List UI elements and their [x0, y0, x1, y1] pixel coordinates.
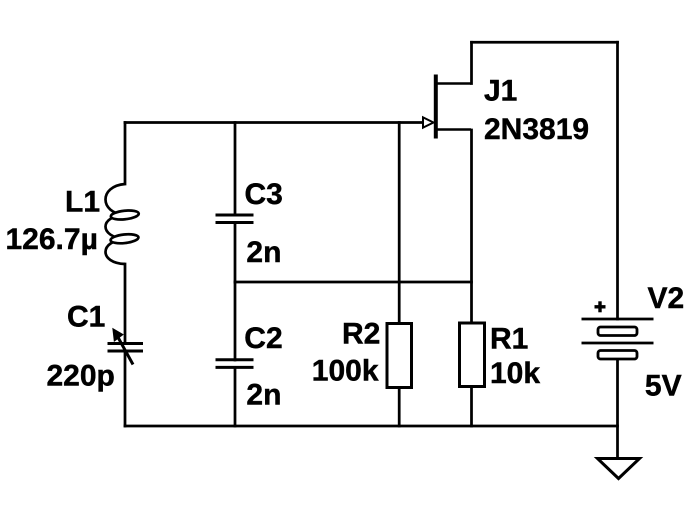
wire bottom horizontal rail — [125, 425, 618, 428]
JFET J1 gate arrow — [423, 117, 434, 127]
capacitor C2 — [216, 360, 254, 368]
svg-text:5V: 5V — [645, 369, 682, 402]
svg-text:2n: 2n — [246, 236, 281, 269]
wire R2 vertical bottom — [398, 387, 401, 426]
wire C2 vertical bottom — [234, 368, 237, 427]
wire source vertical (to R1) — [470, 130, 473, 324]
wire gate horizontal (top-left) — [125, 121, 424, 124]
wire R1 vertical bottom — [470, 386, 473, 426]
capacitor C3 — [216, 215, 254, 223]
C1 arrow head — [113, 329, 122, 340]
wire right vertical (top rail to battery) — [616, 42, 619, 319]
svg-text:R1: R1 — [490, 323, 528, 356]
svg-text:R2: R2 — [342, 317, 380, 350]
svg-text:C3: C3 — [245, 178, 283, 211]
wire battery to bottom rail and ground — [616, 358, 619, 459]
svg-text:L1: L1 — [65, 186, 100, 219]
wire middle horizontal rail — [235, 281, 472, 284]
wire left vertical middle (L1 to C1) — [124, 264, 127, 343]
JFET J1 source tap — [436, 128, 471, 131]
resistor R1 — [460, 323, 485, 387]
variable capacitor C1 — [108, 336, 144, 365]
resistor R2 — [387, 324, 412, 388]
svg-text:220p: 220p — [47, 360, 115, 393]
svg-text:126.7µ: 126.7µ — [6, 223, 98, 256]
svg-text:2n: 2n — [246, 379, 281, 412]
wire left vertical top — [124, 123, 127, 185]
ground symbol — [598, 459, 640, 479]
wire C2 vertical top — [234, 282, 237, 360]
battery V2 top plate — [582, 318, 654, 321]
svg-text:100k: 100k — [312, 354, 379, 387]
wire R2 vertical top (gate to R2) — [398, 123, 401, 325]
JFET J1 channel bar — [434, 75, 438, 139]
battery V2 lower short plate — [598, 351, 637, 360]
inductor L1 — [106, 184, 140, 264]
wire left vertical bottom (C1 to bottom rail) — [124, 351, 127, 426]
battery plus sign — [595, 301, 606, 312]
battery V2 middle plate — [582, 342, 654, 345]
wire C3 branch vertical top — [234, 123, 237, 216]
svg-text:J1: J1 — [484, 75, 517, 108]
svg-text:10k: 10k — [490, 357, 540, 390]
battery V2 upper short plate — [598, 327, 637, 336]
svg-text:V2: V2 — [648, 282, 685, 315]
JFET J1 drain tap — [436, 82, 471, 85]
wire top horizontal rail — [472, 41, 618, 44]
wire drain vertical — [470, 42, 473, 83]
svg-text:C2: C2 — [244, 322, 282, 355]
svg-text:C1: C1 — [67, 301, 105, 334]
wire C3 to middle rail — [234, 223, 237, 283]
svg-text:2N3819: 2N3819 — [484, 113, 589, 146]
